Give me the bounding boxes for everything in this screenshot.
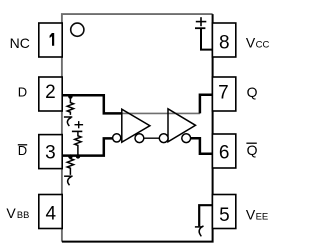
wire through line (noninverting path, gray)	[122, 112, 200, 114]
svg-text:2: 2	[45, 82, 56, 103]
svg-text:3: 3	[45, 143, 56, 164]
wire D input (pin 2 to buffer)	[62, 95, 122, 113]
pin 2 box	[39, 77, 62, 111]
wire VEE internal (pin 5)	[199, 205, 212, 226]
svg-text:BB: BB	[17, 210, 29, 220]
label Dbar (pin 3)	[18, 143, 27, 158]
IC body U1 (8-pin package outline, top/left gray)	[62, 14, 213, 242]
bubble U1b inverted output	[182, 134, 191, 143]
pin 1 box	[39, 23, 62, 57]
node D junction dot	[68, 94, 72, 98]
svg-text:V: V	[246, 34, 256, 50]
svg-text:4: 4	[46, 204, 57, 225]
svg-text:Q: Q	[247, 84, 258, 100]
buffer U1a (first triangle)	[122, 109, 150, 142]
svg-text:6: 6	[219, 143, 230, 164]
svg-text:NC: NC	[10, 35, 30, 51]
svg-text:V: V	[6, 205, 16, 221]
VCC supply symbol (+ above bar) at pin 8	[195, 17, 206, 28]
svg-text:5: 5	[219, 205, 230, 226]
pin 5 box	[212, 195, 235, 229]
wire Qbar output (to pin 6)	[191, 138, 213, 154]
bubble U1a inverted output	[135, 134, 144, 143]
pin 7 box	[212, 77, 235, 111]
pin 3 box	[39, 135, 62, 169]
pin 8 box	[212, 23, 235, 57]
svg-text:V: V	[246, 207, 256, 223]
pin 1 indicator circle	[71, 23, 84, 36]
label VCC (pin 8)	[246, 34, 270, 50]
svg-text:7: 7	[218, 83, 229, 104]
rail squiggle (R1 to VEE)	[64, 117, 72, 126]
label VBB (pin 4)	[6, 205, 29, 221]
resistor R3 (Dbar pulldown)	[67, 156, 73, 175]
IC body U1 outline (bottom/right black)	[62, 14, 213, 242]
pin 6 box	[212, 134, 235, 168]
svg-text:Q: Q	[247, 142, 258, 158]
pin 4 box	[39, 195, 62, 229]
rail squiggle (R3 to VEE)	[64, 176, 73, 185]
buffer U1b (second triangle)	[168, 109, 196, 142]
bubble U1a inverting input	[113, 134, 121, 142]
bubble U1b inverting input	[159, 134, 168, 143]
label Qbar (pin 6)	[246, 142, 257, 158]
node Dbar junction dot 2	[76, 154, 80, 158]
VBB reference source (+ above bar)	[72, 121, 83, 131]
wire Dbar input (pin 3 to buffer)	[62, 138, 113, 155]
node Dbar junction dot 1	[68, 154, 72, 158]
svg-text:8: 8	[219, 33, 230, 54]
wire VCC internal to pin 8	[201, 28, 213, 50]
resistor R1 (D pulldown)	[67, 96, 73, 115]
label VEE (pin 5)	[246, 207, 268, 223]
resistor R2 (VBB source to Dbar node)	[75, 131, 81, 155]
svg-text:D: D	[18, 85, 27, 100]
svg-text:EE: EE	[256, 212, 269, 223]
rail squiggle (VEE)	[195, 226, 204, 236]
wire link between buffer bubbles	[139, 137, 163, 139]
wire Q output (to pin 7)	[200, 95, 213, 114]
pin 1 number	[50, 33, 55, 46]
svg-text:CC: CC	[256, 39, 270, 50]
